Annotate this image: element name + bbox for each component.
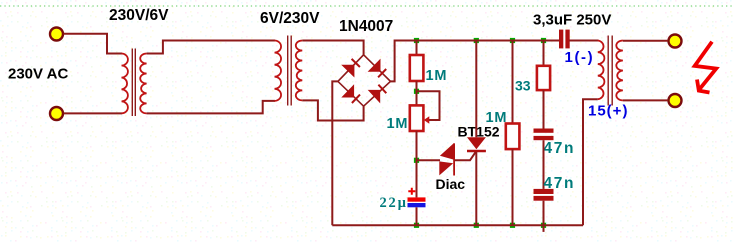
svg-text:6V/230V: 6V/230V [260, 10, 320, 27]
wire terminal B to T1 primary bottom [64, 112, 123, 114]
wire T2 secondary bottom to bridge AC bottom [302, 100, 363, 120]
transformer TR1 core [131, 49, 133, 117]
wire T2 secondary top to bridge AC top [302, 41, 363, 55]
wire terminal A to T1 primary top [64, 34, 123, 54]
thyristor BT152 cathode bar [467, 150, 486, 152]
lightning bolt arrow [695, 42, 717, 90]
terminal 230V AC top [50, 28, 63, 41]
svg-text:Diac: Diac [436, 176, 466, 192]
transformer TR2 primary winding 6V [275, 41, 282, 101]
wire diac to BT152 gate [455, 152, 476, 160]
bridge rectifier 1N4007 diamond [338, 55, 391, 106]
capacitor 3,3uF 250V plates [559, 30, 563, 49]
svg-text:22µ: 22µ [380, 195, 408, 211]
svg-text:1(-): 1(-) [565, 49, 595, 66]
electrolytic capacitor 22u positive plate [408, 197, 426, 201]
transformer TR2 secondary winding 230V [296, 41, 303, 101]
node top rail / 33 resistor branch [541, 38, 546, 43]
wire BT152 cathode to bottom rail [475, 152, 477, 225]
electrolytic capacitor 22u negative plate [408, 203, 426, 207]
transformer TR3 primary winding [598, 41, 605, 100]
svg-text:1M: 1M [486, 110, 508, 126]
wire stub below 47n node [543, 225, 545, 232]
capacitor C1 47n [534, 129, 554, 133]
svg-text:3,3uF 250V: 3,3uF 250V [533, 12, 611, 29]
svg-text:1M: 1M [426, 68, 448, 84]
svg-text:33: 33 [515, 78, 531, 94]
transformer TR2 core [287, 36, 289, 106]
wire diac node to diac [417, 159, 441, 161]
wire T3 secondary top to terminal 1(-) [623, 40, 668, 42]
potentiometer P1 1M body [410, 105, 424, 131]
wire C2 to bottom rail [543, 201, 545, 226]
wire R1 to potentiometer [416, 81, 418, 105]
top dotted green border [0, 5, 734, 7]
svg-text:1M: 1M [387, 116, 409, 132]
wire C1 to C2 [543, 140, 545, 189]
transformer TR3 secondary winding [616, 41, 623, 101]
node top rail / R1 branch [414, 38, 419, 43]
potentiometer wiper wire [417, 91, 440, 120]
wire T3 primary bottom to bottom rail [583, 99, 598, 225]
wire top rail to 33 resistor [543, 40, 545, 66]
wire 1M resistor to bottom rail [512, 149, 514, 225]
wire bridge DC+ up to top rail [391, 41, 561, 82]
bridge diode D2 top-right [368, 59, 381, 72]
wire 22u capacitor to bottom rail [416, 207, 418, 225]
node top rail / 1M resistor branch [510, 38, 515, 43]
wire 3,3uF capacitor to T3 primary top [569, 40, 598, 42]
node bottom rail / 47n capacitor [541, 223, 546, 228]
svg-text:230V AC: 230V AC [8, 66, 68, 83]
svg-text:47n: 47n [544, 140, 576, 157]
node bottom rail / 22u capacitor [414, 223, 419, 228]
wire T1 secondary bottom to T2 primary bottom [147, 101, 275, 114]
transformer TR1 primary winding 230V [122, 54, 128, 114]
wire 33 resistor to 47n capacitor C1 [543, 90, 545, 128]
wire potentiometer to diac node [416, 131, 418, 197]
bridge diode D1 top-left [341, 65, 354, 78]
terminal output 1(-) [669, 35, 682, 48]
capacitor C2 47n [534, 189, 554, 194]
wire top rail to 1M resistor (near BT152) [512, 40, 514, 124]
node R1-potentiometer junction [414, 89, 419, 94]
resistor 33 ohm [537, 66, 550, 90]
node bottom rail / 1M resistor [510, 223, 515, 228]
potentiometer wiper arrow [424, 116, 430, 124]
node top rail / BT152 anode branch [474, 38, 479, 43]
transformer TR3 core [607, 36, 609, 106]
wire top rail to BT152 anode [475, 40, 477, 138]
terminal 230V AC bottom [50, 107, 63, 120]
transformer TR1 secondary winding 6V [140, 54, 146, 114]
wire T1 secondary top to T2 primary top [147, 41, 275, 54]
wire bridge DC- to bottom rail [332, 81, 338, 225]
electrolytic capacitor 22u plus sign [408, 188, 415, 195]
thyristor BT152 triangle [467, 137, 486, 149]
svg-text:230V/6V: 230V/6V [109, 7, 169, 24]
diac symbol [440, 143, 454, 159]
svg-text:1N4007: 1N4007 [339, 18, 393, 35]
terminal output 15(+) [669, 94, 682, 107]
wire T3 secondary bottom to terminal 15(+) [623, 99, 668, 101]
node bottom rail / BT152 cathode [474, 223, 479, 228]
bridge diode D4 bottom-right [368, 90, 381, 104]
node potentiometer-diac junction [414, 158, 419, 163]
resistor 1M (near BT152) [506, 124, 520, 150]
bridge diode D3 bottom-left [341, 84, 354, 97]
wire top rail to R1 [416, 40, 418, 56]
bottom rail wire [332, 224, 583, 226]
resistor R1 1M [410, 55, 424, 81]
